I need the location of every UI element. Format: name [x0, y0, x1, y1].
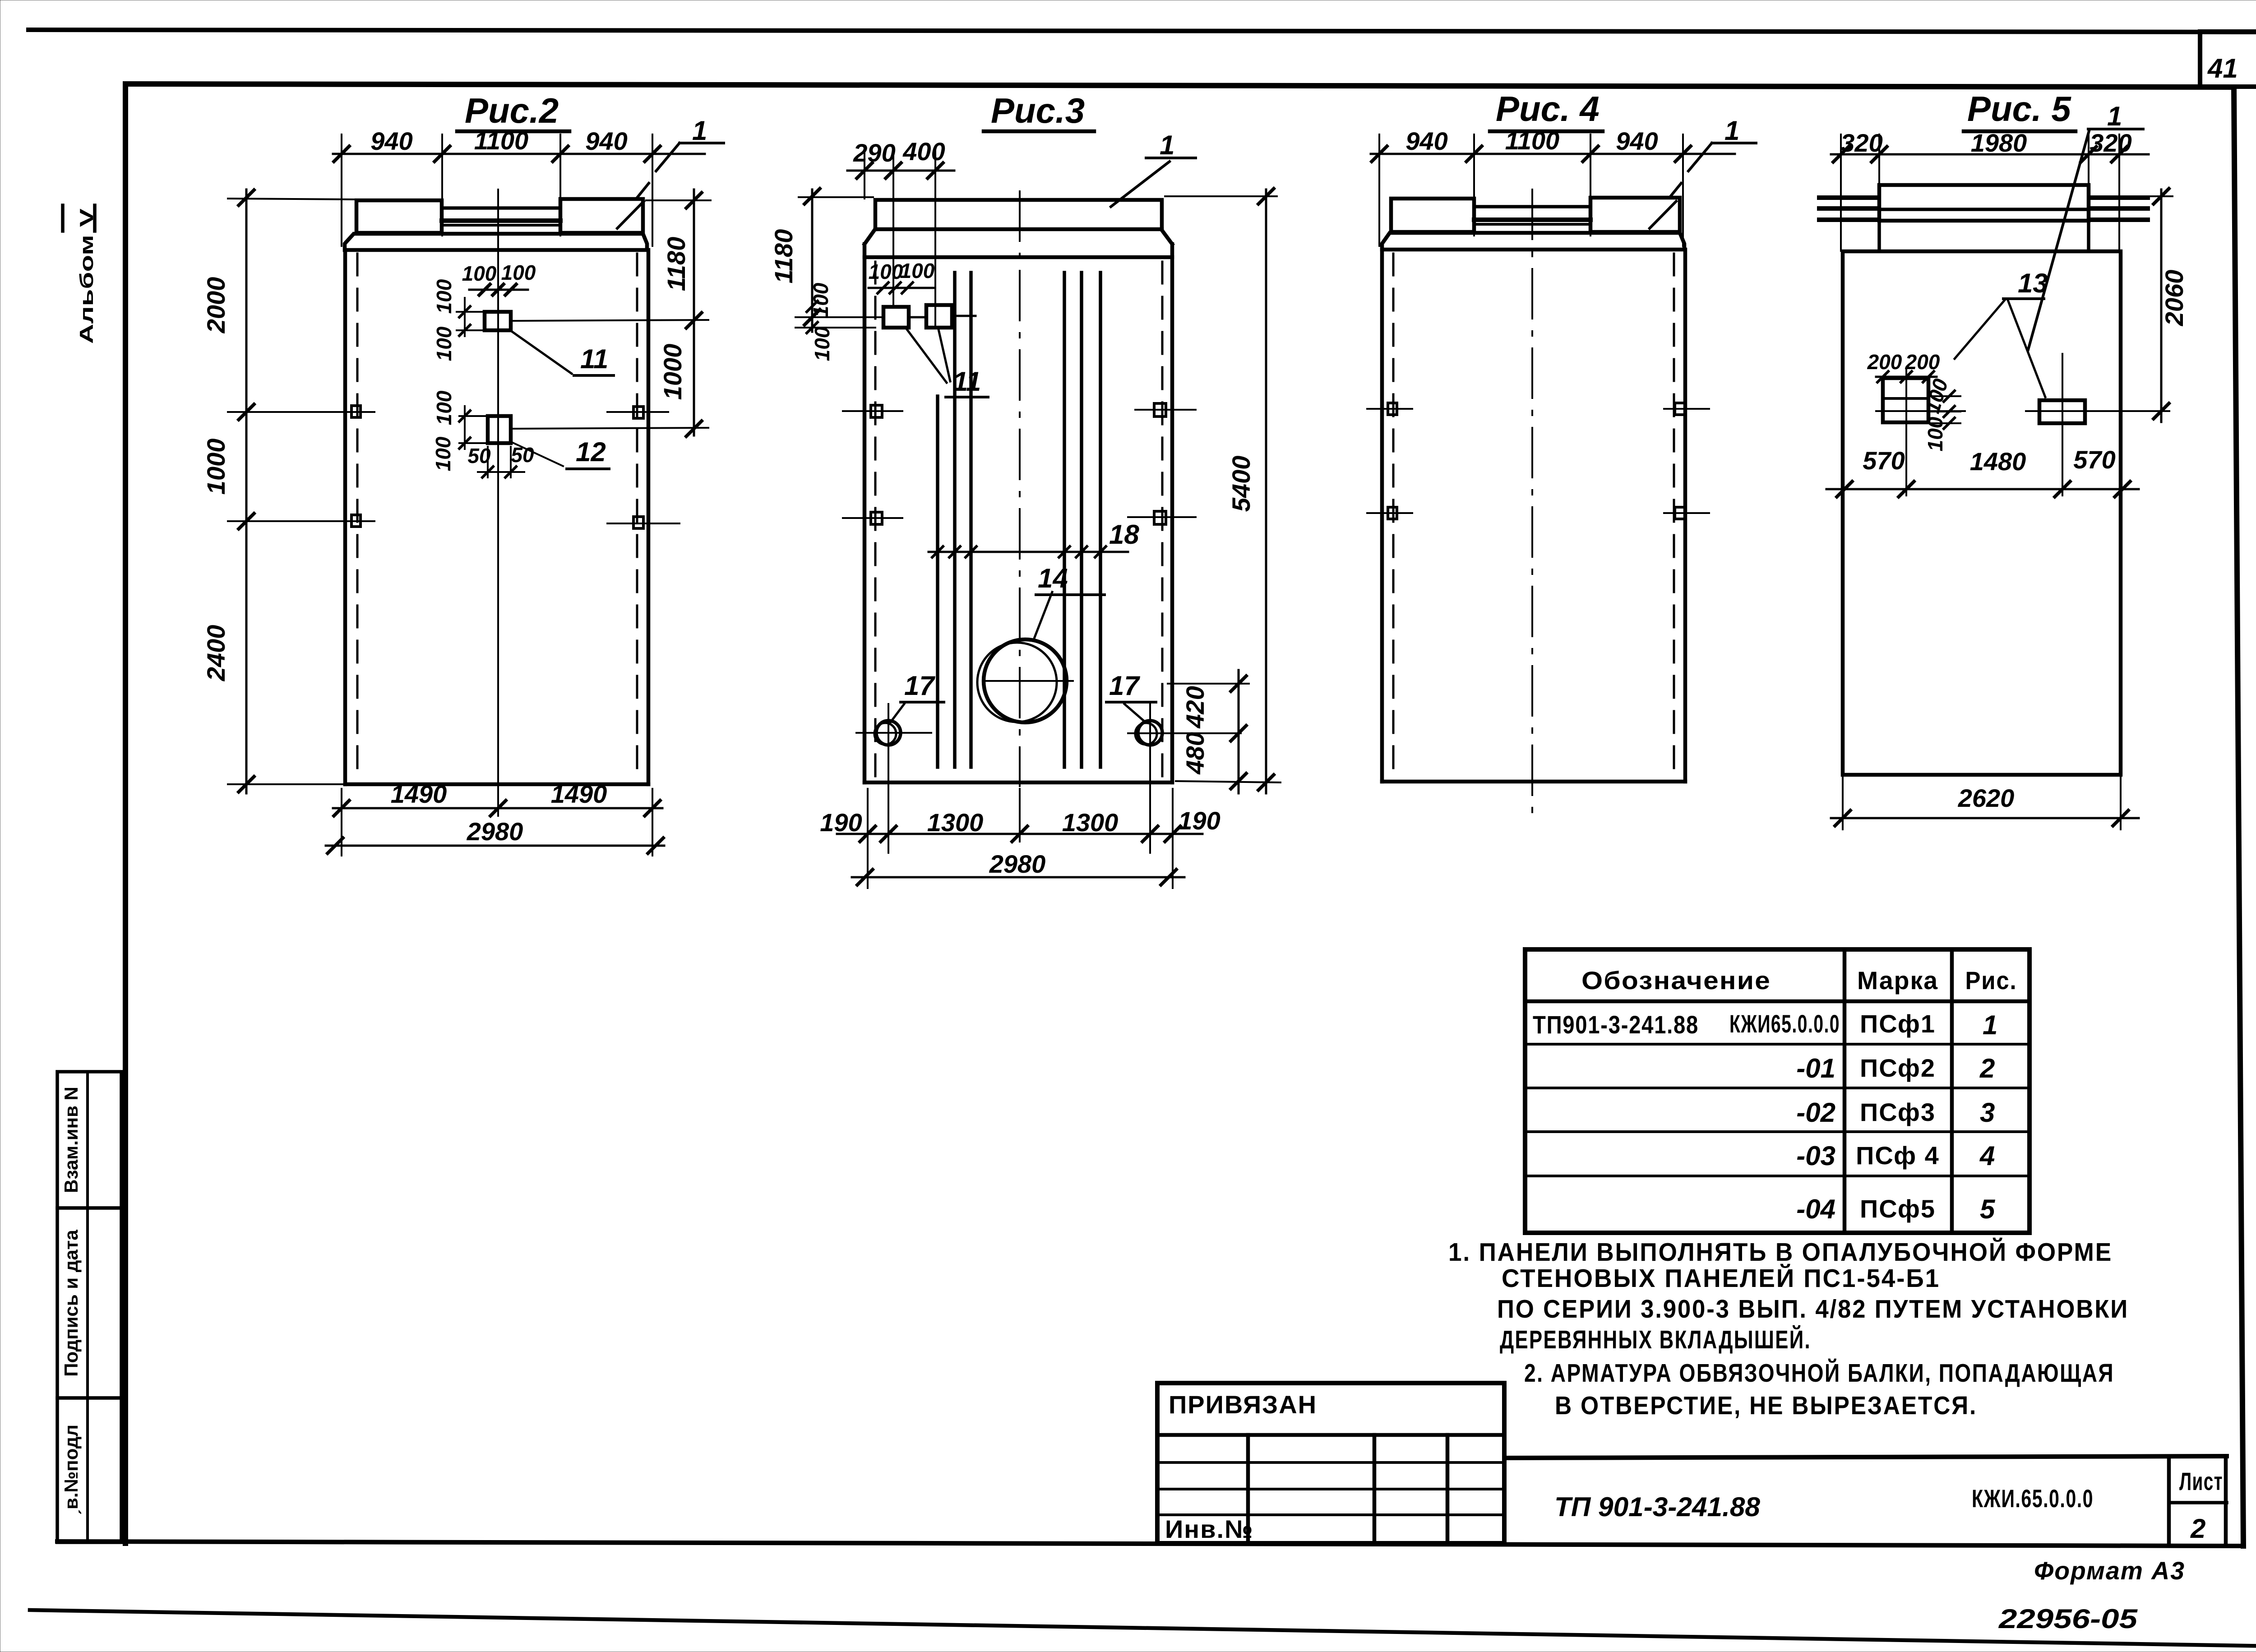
fig2 panel cap left block — [356, 200, 442, 233]
Лист box right edge — [2224, 1456, 2228, 1546]
fig3 left dim line 1180 — [811, 190, 814, 332]
fig4 panel cap center recess lines — [1474, 205, 1590, 208]
fig4 right keyway notch lower — [1675, 507, 1685, 519]
fig2 top dim ticks — [334, 146, 660, 162]
svg-text:290: 290 — [853, 139, 895, 167]
fig3 hole 17 left label underline — [901, 701, 944, 703]
fig3 panel cap rect — [875, 200, 1162, 229]
fig5 opening 13 leaders — [1955, 300, 2045, 397]
fig5 opening 13 axis ext to right dim — [2094, 410, 2169, 412]
svg-text:100: 100 — [462, 262, 497, 285]
fig3 opening 11 left square — [883, 307, 909, 328]
svg-text:11: 11 — [953, 366, 981, 397]
fig5 opening axis line left — [1876, 410, 1965, 412]
fig2 opening 11 label underline — [574, 374, 614, 377]
fig2 right dim extension top — [646, 199, 711, 201]
fig2 bottom dim line 2980 — [326, 845, 664, 847]
fig5 rebar bars right — [2091, 198, 2148, 220]
fig2 panel right dashed inner line — [636, 254, 638, 780]
fig5 opening 13 right block — [2039, 400, 2085, 423]
fig3 right keyway notch lower — [1154, 511, 1166, 524]
svg-text:13: 13 — [2018, 268, 2048, 298]
svg-text:22956-05: 22956-05 — [1998, 1604, 2138, 1634]
fig2 top dimension line 940|1100|940 — [333, 153, 705, 155]
figure 3 title underline — [984, 130, 1094, 134]
fig2 right dim ticks — [686, 193, 702, 436]
fig2 panel body left edge — [343, 250, 347, 784]
marks table column divider Рис — [1950, 949, 1954, 1233]
fig4 callout 1 leader slash lower — [1650, 201, 1676, 228]
svg-text:100: 100 — [432, 390, 456, 425]
fig3 opening 14 circle double line — [977, 643, 1057, 722]
marks table header row line — [1525, 1000, 2029, 1004]
svg-text:320: 320 — [2090, 129, 2131, 157]
fig3 left dim ext lines — [795, 197, 883, 328]
drawing frame right border — [2234, 87, 2243, 1546]
fig3 callout 1 leader — [1111, 162, 1170, 207]
fig5 rebar bars left — [1819, 198, 1877, 220]
fig2 opening 11 leader — [512, 332, 572, 374]
fig5 right dim line 2060 — [2160, 190, 2163, 422]
fig3 dim line 18 — [929, 551, 1128, 553]
fig3 hole 17 right circle — [1138, 721, 1162, 745]
fig3 opening 14 horizontal axis — [984, 680, 1073, 682]
title stamp ПРИВЯЗАН box — [1157, 1383, 1504, 1543]
fig2 panel body right edge — [647, 250, 651, 784]
fig3 opening 14 label underline — [1036, 593, 1105, 596]
svg-text:Марка: Марка — [1857, 966, 1938, 995]
svg-text:100: 100 — [432, 279, 456, 314]
fig3 right keyway notch upper — [1154, 403, 1166, 416]
svg-text:1180: 1180 — [769, 229, 798, 283]
svg-text:Рис.3: Рис.3 — [991, 91, 1085, 130]
fig4 left keyway notch lower — [1388, 507, 1397, 519]
overline of roman numeral V — [61, 205, 65, 231]
fig2 left dimension line 2000|1000|2400 — [245, 190, 248, 793]
fig2 left keyway notch upper — [351, 406, 361, 417]
svg-text:570: 570 — [1863, 446, 1905, 475]
svg-text:-02: -02 — [1796, 1097, 1835, 1128]
svg-text:1480: 1480 — [1970, 447, 2026, 476]
svg-text:1980: 1980 — [1971, 129, 2027, 157]
svg-text:1000: 1000 — [202, 439, 230, 495]
fig5 opening 13 left block inner lines — [1883, 397, 1928, 400]
fig3 notch tick lines — [843, 410, 1196, 518]
fig5 bottom dim ext lines — [1843, 777, 2121, 829]
svg-text:480: 480 — [1181, 732, 1209, 774]
svg-text:1: 1 — [1160, 130, 1174, 160]
svg-text:1: 1 — [692, 116, 707, 146]
svg-text:5: 5 — [1980, 1194, 1996, 1224]
svg-text:100: 100 — [810, 326, 834, 361]
drawing frame bottom border — [57, 1541, 2243, 1546]
svg-text:Взам.инв N: Взам.инв N — [60, 1087, 82, 1193]
fig2 opening 11 dim line 100|100 — [469, 289, 528, 291]
fig3 top dim line 290|400 — [847, 170, 954, 172]
fig2 opening 12 ext to right dim — [512, 428, 708, 429]
svg-text:ПСф5: ПСф5 — [1860, 1194, 1936, 1223]
fig3 hole 17 right label underline — [1106, 701, 1156, 703]
fig3 hole 17 right axis lines — [1128, 704, 1241, 853]
svg-text:ПРИВЯЗАН: ПРИВЯЗАН — [1169, 1390, 1317, 1419]
fig3 overall dim line 5400 — [1265, 190, 1267, 793]
fig4 callout 1 leader slash upper — [1669, 183, 1681, 198]
fig2 callout 1 leader slash lower — [617, 201, 644, 228]
fig5 callout 1 underline — [2088, 128, 2143, 130]
fig3 top dim ext lines — [864, 151, 935, 328]
svg-text:100: 100 — [432, 326, 456, 361]
fig3 bottom dim ext lines — [868, 789, 1173, 888]
fig3 head band outline — [864, 230, 1172, 257]
fig3 dash between squares — [911, 316, 975, 317]
svg-text:3: 3 — [1980, 1097, 1995, 1128]
figure 5 title underline — [1964, 130, 2076, 134]
stamp box column dividers — [1248, 1435, 1447, 1543]
svg-text:Инв.№: Инв.№ — [1165, 1515, 1253, 1543]
fig3 callout 1 underline — [1146, 157, 1196, 159]
svg-text:-04: -04 — [1796, 1194, 1835, 1224]
fig4 callout 1 underline — [1688, 143, 1756, 171]
svg-text:2980: 2980 — [467, 817, 523, 846]
marks table column divider Марка — [1843, 949, 1847, 1233]
sidebar stamp box: Подпись и дата — [57, 1208, 121, 1398]
fig5 top dim ext lines — [1841, 134, 2119, 251]
fig4 panel body left edge — [1380, 250, 1384, 782]
svg-text:1100: 1100 — [474, 126, 528, 155]
fig3 opening 11 label underline — [946, 396, 988, 398]
fig3 panel bottom edge — [864, 781, 1172, 785]
svg-text:5400: 5400 — [1227, 456, 1255, 512]
fig2 left dim ticks — [239, 190, 254, 792]
svg-text:100: 100 — [501, 261, 536, 284]
fig2 right keyway notch lower — [633, 517, 643, 528]
svg-text:В ОТВЕРСТИЕ, НЕ ВЫРЕЗАЕТСЯ.: В ОТВЕРСТИЕ, НЕ ВЫРЕЗАЕТСЯ. — [1555, 1391, 1977, 1420]
fig4 panel cap left block — [1391, 199, 1474, 232]
fig5 bottom dim line 2620 — [1831, 817, 2139, 819]
fig2 opening 12 square — [488, 416, 511, 443]
svg-text:200: 200 — [1905, 350, 1940, 374]
fig2 opening 12 left ext lines — [459, 406, 488, 449]
fig4 top dimension line 940|1100|940 — [1371, 153, 1735, 155]
svg-text:4: 4 — [1979, 1141, 1995, 1171]
fig2 opening 12 leader — [510, 441, 563, 466]
main title bar top line — [1504, 1456, 2227, 1458]
svg-text:ДЕРЕВЯННЫХ ВКЛАДЫШЕЙ.: ДЕРЕВЯННЫХ ВКЛАДЫШЕЙ. — [1500, 1325, 1811, 1354]
fig4 left keyway notch upper — [1388, 403, 1397, 415]
fig2 panel cap center recess lines — [442, 206, 560, 210]
fig3 opening 14 leader — [1033, 592, 1052, 641]
svg-text:18: 18 — [1109, 519, 1139, 550]
fig2 bottom dim ext lines — [342, 789, 652, 856]
fig2 panel cap right block — [560, 199, 643, 233]
fig4 right keyway notch upper — [1675, 403, 1685, 415]
svg-text:ТП 901-3-241.88: ТП 901-3-241.88 — [1554, 1492, 1761, 1522]
sheet top edge line — [28, 30, 2256, 32]
svg-text:1: 1 — [2107, 101, 2122, 131]
figure 4 title underline — [1490, 130, 1603, 134]
fig3 left dashed inner line — [874, 262, 877, 779]
fig3 opening 14 circle — [984, 639, 1067, 722]
svg-text:400: 400 — [902, 137, 945, 166]
fig3 hole 17 left leader — [891, 704, 904, 722]
svg-text:940: 940 — [1405, 127, 1447, 155]
stamp box row lines — [1157, 1462, 1504, 1515]
fig3 opening 11 leaders — [907, 329, 950, 383]
svg-text:2400: 2400 — [202, 625, 230, 682]
fig3 opening 11 right square — [926, 305, 952, 328]
svg-text:100: 100 — [809, 282, 832, 317]
svg-text:570: 570 — [2073, 445, 2115, 474]
svg-text:Формат А3: Формат А3 — [2034, 1556, 2185, 1585]
svg-text:ˏв.№подл: ˏв.№подл — [60, 1425, 82, 1516]
sidebar stamp box: Инв.№ подл — [57, 1398, 121, 1542]
fig5 dim line 200|200 — [1876, 376, 1937, 378]
fig4 right dashed inner line — [1673, 254, 1675, 778]
svg-text:ТП901-3-241.88: ТП901-3-241.88 — [1533, 1010, 1699, 1039]
fig2 panel vertical center line — [497, 190, 499, 787]
svg-text:2. АРМАТУРА ОБВЯЗОЧНОЙ БАЛКИ,: 2. АРМАТУРА ОБВЯЗОЧНОЙ БАЛКИ, ПОПАДАЮЩАЯ — [1524, 1358, 2114, 1388]
fig2 panel left dashed inner line — [356, 254, 359, 780]
fig3 hole 17 left circle — [876, 721, 901, 745]
fig4 panel body right edge — [1683, 250, 1687, 782]
fig3 center axis dash-dot line — [1019, 191, 1021, 786]
svg-text:1490: 1490 — [551, 780, 607, 808]
svg-text:420: 420 — [1181, 686, 1209, 728]
fig2 bottom dim line 1490|1490 — [333, 807, 662, 810]
svg-text:11: 11 — [580, 344, 608, 374]
svg-text:200: 200 — [1867, 350, 1902, 374]
sidebar stamp box: Взам.инв.N — [57, 1072, 121, 1208]
svg-text:ПСф1: ПСф1 — [1860, 1009, 1936, 1038]
svg-text:ПСф3: ПСф3 — [1860, 1098, 1936, 1126]
fig3 tendon duct lines right group — [1064, 273, 1100, 767]
svg-text:КЖИ65.0.0.0: КЖИ65.0.0.0 — [1729, 1009, 1840, 1038]
svg-text:1180: 1180 — [662, 237, 690, 291]
svg-text:Лист: Лист — [2179, 1467, 2223, 1495]
fig2 opening 12 bottom dim line — [478, 447, 524, 477]
svg-text:1: 1 — [1724, 116, 1739, 146]
svg-text:17: 17 — [904, 671, 935, 701]
svg-text:2980: 2980 — [989, 850, 1046, 878]
marks table row lines — [1525, 1044, 2029, 1176]
svg-text:320: 320 — [1840, 129, 1882, 157]
fig4 panel cap right block — [1590, 198, 1680, 232]
fig3 panel body right edge — [1170, 257, 1174, 782]
fig2 left dim extension lines — [228, 199, 374, 784]
fig3 hole 17 left axis lines — [856, 704, 931, 853]
fig3 right dashed inner line — [1161, 262, 1164, 779]
svg-text:2060: 2060 — [2160, 270, 2188, 327]
fig2 right keyway notch upper — [633, 407, 643, 418]
fig5 top dim line 320|1980|320 — [1831, 153, 2149, 156]
fig4 panel bottom edge — [1382, 780, 1685, 784]
fig5 opening 13 label underline — [2003, 297, 2044, 300]
fig5 ring beam outline — [1879, 185, 2089, 221]
stamp box divider under ПРИВЯЗАН — [1157, 1433, 1504, 1437]
svg-text:-03: -03 — [1796, 1141, 1835, 1171]
svg-text:940: 940 — [1616, 127, 1658, 155]
svg-text:КЖИ.65.0.0.0: КЖИ.65.0.0.0 — [1972, 1484, 2094, 1513]
svg-text:2: 2 — [2190, 1513, 2205, 1544]
fig5 ring beam inner line — [1879, 208, 2089, 211]
fig2 left keyway notch lower — [351, 515, 361, 527]
fig5 100 dim ticks — [1928, 396, 1960, 423]
svg-text:2: 2 — [1979, 1053, 1995, 1083]
svg-text:940: 940 — [585, 127, 627, 155]
fig2 callout 1 leader slash upper — [637, 183, 649, 198]
svg-text:17: 17 — [1109, 671, 1140, 701]
svg-text:-01: -01 — [1796, 1053, 1835, 1083]
fig5 callout 1 leader — [2028, 131, 2089, 350]
svg-text:2620: 2620 — [1958, 784, 2015, 812]
marks table outer border — [1525, 949, 2029, 1233]
fig2 opening 12 label underline — [567, 467, 609, 470]
svg-text:100: 100 — [900, 259, 935, 282]
svg-text:1. ПАНЕЛИ ВЫПОЛНЯТЬ В ОПАЛУБОЧ: 1. ПАНЕЛИ ВЫПОЛНЯТЬ В ОПАЛУБОЧНОЙ ФОРМЕ — [1448, 1237, 2113, 1267]
svg-text:Рис. 4: Рис. 4 — [1496, 89, 1600, 129]
fig2 right dimension line 1180|1000 — [693, 190, 695, 435]
fig3 hole 17 right leader — [1124, 704, 1145, 722]
drawing frame top border — [125, 84, 2234, 87]
fig2 callout 1 underline — [656, 143, 724, 171]
svg-text:ПСф 4: ПСф 4 — [1856, 1141, 1940, 1170]
fig2 top dim extension lines — [342, 134, 652, 246]
fig4 head band outline — [1382, 233, 1684, 250]
svg-text:Рис.2: Рис.2 — [465, 91, 559, 130]
fig3 right dim ext lines — [1168, 684, 1281, 782]
svg-text:1490: 1490 — [391, 780, 447, 808]
svg-text:Рис. 5: Рис. 5 — [1967, 89, 2071, 129]
fig5 ring beam legs — [1879, 221, 2089, 251]
svg-text:2000: 2000 — [202, 277, 230, 334]
svg-text:1000: 1000 — [658, 344, 687, 400]
fig5 dim line 570|1480|570 — [1826, 488, 2139, 491]
Лист box horizontal divider — [2169, 1501, 2227, 1504]
fig3 left keyway notch lower — [871, 512, 882, 524]
fig2 panel head band outline — [345, 234, 647, 250]
svg-text:940: 940 — [370, 127, 412, 155]
drawing frame left border — [123, 84, 128, 1543]
svg-text:14: 14 — [1038, 563, 1068, 593]
Лист box divider — [2167, 1456, 2171, 1545]
fig3 right dim line 420|480 — [1238, 670, 1240, 793]
figure 2 title underline — [457, 130, 569, 134]
fig2 opening 11 ext to right dim — [512, 320, 708, 321]
svg-text:190: 190 — [1178, 806, 1220, 835]
fig3 bottom dim line 190|1300|1300|190 — [837, 833, 1202, 835]
sidebar inner divider — [86, 1072, 89, 1541]
fig4 left dashed inner line — [1392, 254, 1395, 778]
svg-text:100: 100 — [431, 436, 455, 471]
svg-text:1: 1 — [1983, 1010, 1997, 1040]
fig5 panel body rectangle — [1843, 251, 2121, 775]
fig3 panel cap bottom line — [875, 227, 1162, 231]
fig4 top dim extension lines — [1379, 134, 1683, 246]
svg-text:100: 100 — [1923, 416, 1947, 451]
fig3 panel body left edge — [863, 257, 867, 782]
fig3 overall dim ext top — [1165, 195, 1277, 197]
fig3 left keyway notch upper — [871, 405, 882, 417]
fig5 opening 13 left vertical axis — [1905, 370, 1907, 495]
svg-text:100: 100 — [869, 260, 903, 283]
fig5 opening 13 right block axis lines — [2026, 354, 2094, 495]
svg-text:1300: 1300 — [1062, 808, 1119, 837]
svg-text:41: 41 — [2207, 53, 2238, 83]
svg-text:Подпись и дата: Подпись и дата — [60, 1230, 82, 1377]
svg-text:СТЕНОВЫХ ПАНЕЛЕЙ ПС1-54-Б1: СТЕНОВЫХ ПАНЕЛЕЙ ПС1-54-Б1 — [1502, 1263, 1940, 1293]
svg-text:Обозначение: Обозначение — [1581, 966, 1771, 995]
fig4 notch tick lines — [1367, 409, 1709, 513]
fig5 opening 13 left block — [1883, 378, 1928, 422]
page number box 41 — [2200, 32, 2256, 87]
fig2 right notch tick lines — [607, 412, 680, 523]
fig4 center axis dash-dot line — [1531, 190, 1533, 812]
svg-text:ПСф2: ПСф2 — [1860, 1054, 1936, 1082]
fig2 panel bottom edge — [345, 782, 648, 787]
fig5 right dim ext top — [2094, 195, 2173, 197]
fig3 small dim line 100|100 above openings — [869, 287, 935, 289]
sheet bottom edge line — [30, 1610, 2256, 1646]
fig3 small dim ticks on left line — [807, 301, 818, 333]
svg-text:12: 12 — [576, 437, 606, 467]
fig3 bottom dim line 2980 — [852, 876, 1184, 879]
svg-text:190: 190 — [820, 808, 862, 837]
svg-text:Рис.: Рис. — [1965, 966, 2017, 995]
underline of roman numeral V — [93, 205, 97, 231]
svg-text:ПО СЕРИИ 3.900-3 ВЫП. 4/82 ПУТ: ПО СЕРИИ 3.900-3 ВЫП. 4/82 ПУТЕМ УСТАНОВ… — [1497, 1295, 2129, 1323]
fig3 tendon duct lines left group — [938, 273, 971, 767]
fig2 opening 11 small vertical dim line — [457, 298, 485, 336]
fig2 opening 11 square — [485, 312, 511, 330]
svg-text:1300: 1300 — [927, 808, 984, 837]
svg-text:1100: 1100 — [1505, 126, 1559, 155]
